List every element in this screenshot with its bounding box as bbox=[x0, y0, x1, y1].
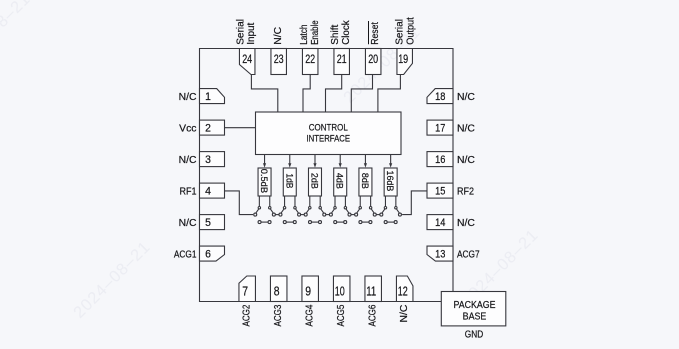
svg-text:GND: GND bbox=[465, 328, 484, 340]
switch S4 output side bbox=[344, 196, 351, 216]
svg-text:4dB: 4dB bbox=[335, 173, 346, 189]
wire RF1 pin4 to switch S1 bbox=[225, 191, 254, 215]
wire pin19 Serial Output to control interface bbox=[378, 75, 401, 113]
pin 16 (N/C) bbox=[427, 152, 475, 167]
svg-text:Enable: Enable bbox=[310, 20, 321, 45]
svg-text:PACKAGE: PACKAGE bbox=[454, 299, 496, 311]
pin 18 (N/C) bbox=[427, 89, 475, 104]
control interface block bbox=[256, 112, 402, 155]
switch S3 input side bbox=[304, 196, 311, 216]
svg-text:20: 20 bbox=[368, 52, 378, 66]
bypass contacts stage 5 bbox=[359, 221, 372, 224]
svg-text:ACG6: ACG6 bbox=[368, 304, 379, 326]
wire stage 4 to stage 5 bbox=[351, 214, 355, 216]
svg-text:0.5dB: 0.5dB bbox=[259, 169, 270, 193]
wire control interface to attenuator 4dB bbox=[339, 155, 342, 168]
svg-text:19: 19 bbox=[398, 52, 408, 66]
svg-text:Vcc: Vcc bbox=[179, 123, 196, 134]
svg-text:2: 2 bbox=[205, 123, 211, 135]
svg-text:ACG2: ACG2 bbox=[242, 304, 253, 326]
bypass contacts stage 6 bbox=[384, 221, 397, 224]
attenuator block 4dB bbox=[334, 168, 347, 196]
svg-text:N/C: N/C bbox=[179, 155, 197, 166]
svg-text:N/C: N/C bbox=[457, 218, 475, 229]
pin 12 (N/C) bbox=[396, 276, 413, 323]
pin 5 (N/C) bbox=[179, 215, 225, 230]
package base pad bbox=[441, 292, 506, 326]
bypass contacts stage 4 bbox=[334, 221, 347, 224]
pin 11 (ACG6) bbox=[365, 276, 382, 327]
wire stage 5 to stage 6 bbox=[376, 214, 380, 216]
svg-text:N/C: N/C bbox=[179, 92, 197, 103]
pin 24 (Serial Input) bbox=[236, 19, 257, 75]
svg-text:4: 4 bbox=[205, 186, 211, 198]
wire pin20 Reset to control interface bbox=[351, 75, 372, 113]
wire switch S6 to RF2 pin15 bbox=[402, 191, 427, 215]
pin 23 (N/C) bbox=[271, 26, 287, 74]
svg-text:N/C: N/C bbox=[399, 304, 410, 322]
svg-text:Clock: Clock bbox=[341, 20, 352, 45]
svg-text:ACG1: ACG1 bbox=[174, 249, 197, 260]
svg-text:8: 8 bbox=[274, 284, 280, 298]
svg-text:17: 17 bbox=[435, 123, 445, 135]
wire pin21 Shift Clock to control interface bbox=[326, 75, 342, 113]
svg-text:N/C: N/C bbox=[457, 92, 475, 103]
svg-text:24: 24 bbox=[242, 52, 252, 66]
wire stage 1 to stage 2 bbox=[275, 214, 279, 216]
svg-text:9: 9 bbox=[305, 284, 311, 298]
svg-text:N/C: N/C bbox=[457, 155, 475, 166]
pin 3 (N/C) bbox=[179, 152, 225, 167]
svg-text:2dB: 2dB bbox=[309, 173, 320, 189]
svg-text:ACG4: ACG4 bbox=[305, 304, 316, 326]
wire control interface to attenuator 0.5dB bbox=[263, 155, 266, 168]
switch S3 output side bbox=[319, 196, 326, 216]
switch S1 output side bbox=[269, 196, 276, 216]
svg-text:ACG3: ACG3 bbox=[273, 304, 284, 326]
attenuator block 2dB bbox=[308, 168, 321, 196]
svg-text:RF2: RF2 bbox=[457, 186, 474, 197]
switch S5 input side bbox=[355, 196, 362, 216]
svg-text:13: 13 bbox=[435, 249, 445, 261]
svg-text:15: 15 bbox=[435, 186, 445, 198]
package outline U1 bbox=[200, 49, 454, 302]
svg-text:10: 10 bbox=[335, 284, 345, 298]
pin 2 (Vcc) bbox=[179, 120, 224, 135]
pin 15 (RF2) bbox=[427, 183, 474, 198]
pin 4 (RF1) bbox=[180, 183, 225, 198]
svg-text:7: 7 bbox=[242, 284, 248, 298]
wire control interface to attenuator 2dB bbox=[313, 155, 316, 168]
attenuator block 16dB bbox=[384, 168, 397, 196]
svg-text:1: 1 bbox=[205, 91, 211, 103]
svg-text:18: 18 bbox=[435, 91, 445, 103]
svg-text:BASE: BASE bbox=[463, 310, 487, 322]
svg-text:Output: Output bbox=[405, 17, 416, 45]
wire pin22 Latch Enable to control interface bbox=[303, 75, 310, 113]
switch S2 output side bbox=[294, 196, 301, 216]
wire control interface to attenuator 16dB bbox=[389, 155, 392, 168]
pin 1 (N/C) bbox=[179, 89, 225, 104]
svg-text:11: 11 bbox=[366, 284, 376, 298]
bypass contacts stage 2 bbox=[283, 221, 296, 224]
pin 17 (N/C) bbox=[427, 120, 475, 135]
bypass contacts stage 3 bbox=[308, 221, 321, 224]
svg-text:ACG7: ACG7 bbox=[457, 249, 480, 260]
svg-text:N/C: N/C bbox=[457, 123, 475, 134]
switch S2 input side bbox=[279, 196, 286, 216]
pin 6 (ACG1) bbox=[174, 246, 225, 261]
pin 19 (Serial Output) bbox=[394, 17, 416, 74]
svg-text:14: 14 bbox=[435, 217, 445, 229]
pin 14 (N/C) bbox=[427, 215, 475, 230]
svg-text:N/C: N/C bbox=[179, 218, 197, 229]
wire stage 3 to stage 4 bbox=[326, 214, 330, 216]
svg-text:Shift: Shift bbox=[330, 25, 341, 45]
svg-text:23: 23 bbox=[274, 52, 284, 66]
wire control interface to attenuator 8dB bbox=[364, 155, 367, 168]
pin 7 (ACG2) bbox=[239, 276, 256, 327]
switch S6 output side bbox=[395, 196, 402, 216]
svg-text:12: 12 bbox=[398, 284, 408, 298]
svg-text:6: 6 bbox=[205, 249, 211, 261]
attenuator block 8dB bbox=[359, 168, 372, 196]
bypass contacts stage 1 bbox=[258, 221, 271, 224]
wire stage 2 to stage 3 bbox=[301, 214, 305, 216]
pin 21 (Shift Clock) bbox=[330, 20, 352, 75]
svg-text:2024–08–21: 2024–08–21 bbox=[70, 238, 154, 322]
pin 13 (ACG7) bbox=[427, 246, 480, 261]
svg-text:16: 16 bbox=[435, 154, 445, 166]
svg-text:22: 22 bbox=[305, 52, 315, 66]
attenuator block 0.5dB bbox=[258, 168, 271, 196]
wire control interface to attenuator 1dB bbox=[288, 155, 291, 168]
svg-text:CONTROL: CONTROL bbox=[309, 123, 348, 133]
switch S4 input side bbox=[329, 196, 336, 216]
svg-text:Input: Input bbox=[246, 23, 257, 45]
svg-text:8dB: 8dB bbox=[360, 173, 371, 189]
switch S6 input side bbox=[380, 196, 387, 216]
svg-text:Reset: Reset bbox=[370, 22, 381, 45]
svg-text:RF1: RF1 bbox=[180, 186, 197, 197]
wire pin24 Serial Input to control interface bbox=[251, 75, 277, 113]
pin 8 (ACG3) bbox=[270, 276, 287, 327]
wire Vcc pin2 to control interface bbox=[225, 127, 256, 129]
pin 10 (ACG5) bbox=[333, 276, 350, 327]
svg-text:N/C: N/C bbox=[273, 26, 284, 44]
attenuator block 1dB bbox=[283, 168, 296, 196]
switch S5 output side bbox=[369, 196, 376, 216]
svg-text:5: 5 bbox=[205, 217, 211, 229]
svg-text:ACG5: ACG5 bbox=[336, 304, 347, 326]
switch S1 input side bbox=[254, 196, 261, 216]
svg-text:INTERFACE: INTERFACE bbox=[307, 134, 351, 144]
svg-text:Serial: Serial bbox=[394, 19, 405, 45]
svg-text:Latch: Latch bbox=[299, 24, 310, 44]
svg-text:2024–08–21: 2024–08–21 bbox=[0, 0, 34, 74]
svg-text:3: 3 bbox=[205, 154, 211, 166]
svg-text:16dB: 16dB bbox=[385, 171, 396, 192]
pin 9 (ACG4) bbox=[302, 276, 319, 327]
pin 20 (Reset) bbox=[365, 21, 381, 75]
svg-text:1dB: 1dB bbox=[284, 173, 295, 188]
pin 22 (Latch Enable) bbox=[299, 20, 321, 74]
svg-text:21: 21 bbox=[337, 52, 347, 66]
